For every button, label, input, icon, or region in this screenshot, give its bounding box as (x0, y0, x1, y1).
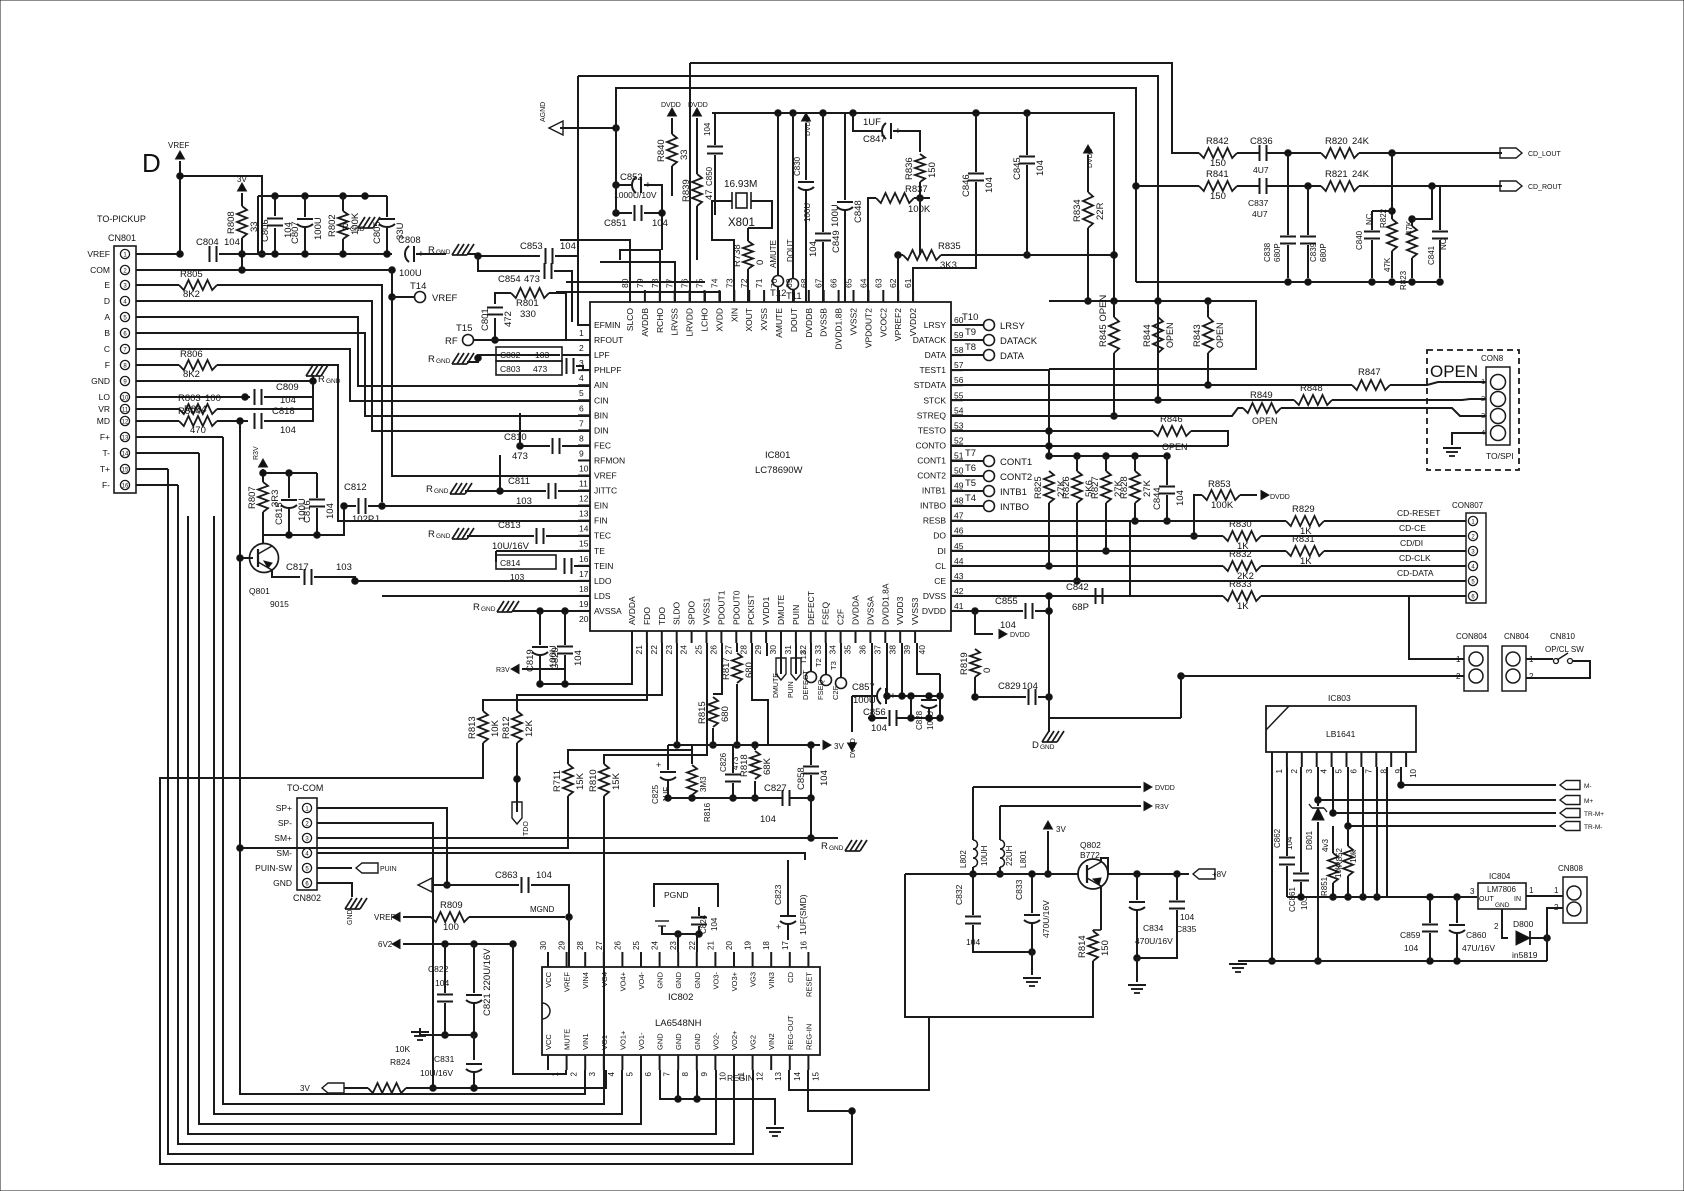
wire vert1049 dvdd (1046, 593, 1053, 690)
wire r823 b (1411, 258, 1413, 278)
wire sp- row (317, 823, 436, 1091)
wire c846 b (913, 182, 976, 302)
capacitor C815 (274, 498, 308, 525)
svg-text:24K: 24K (1352, 169, 1370, 180)
wire row45 b (1324, 550, 1466, 552)
svg-text:FSEQ: FSEQ (816, 679, 825, 700)
svg-text:VREF: VREF (563, 972, 572, 992)
svg-text:R848: R848 (1300, 383, 1323, 394)
capacitor C817 (286, 562, 352, 585)
svg-text:76: 76 (680, 278, 690, 288)
wire E row2 (217, 285, 382, 502)
resistor R820 (1321, 136, 1370, 158)
svg-text:33: 33 (813, 645, 823, 655)
wire T+ row (136, 468, 168, 470)
wire pgnd drops (677, 934, 679, 952)
label R823 (1399, 220, 1414, 290)
svg-text:22UH: 22UH (1005, 845, 1014, 866)
svg-text:CD_ROUT: CD_ROUT (1528, 184, 1563, 191)
wire bus v2 (199, 453, 641, 1124)
resistor R817 (721, 653, 755, 683)
wire c816 leads (316, 473, 318, 498)
resistor R845 (1098, 295, 1119, 353)
label DGND (1032, 740, 1055, 751)
svg-text:VREF: VREF (594, 471, 617, 481)
svg-text:CN808: CN808 (1558, 864, 1583, 873)
svg-text:VIN4: VIN4 (581, 972, 590, 989)
svg-text:FDO: FDO (642, 607, 652, 625)
resistor R832 (1223, 549, 1261, 582)
wire r807 bottom (262, 512, 264, 543)
wire c835 b (1137, 910, 1177, 958)
wire t14 tap (392, 296, 414, 298)
capacitor C841 (1432, 232, 1448, 239)
net flag CD_ROUT (1500, 181, 1563, 191)
svg-text:5: 5 (579, 388, 584, 398)
label C833v (1041, 900, 1051, 938)
wire row46 b (1261, 535, 1466, 537)
capacitor C837 (1260, 178, 1267, 194)
capacitor C852 (620, 172, 651, 193)
wire r828 lead (1134, 456, 1136, 471)
svg-text:150: 150 (1210, 191, 1226, 202)
svg-text:19: 19 (579, 599, 589, 609)
svg-text:AMUTE: AMUTE (769, 240, 778, 268)
wire c842 right (1103, 521, 1130, 596)
wire VREF branch (177, 173, 266, 258)
svg-text:C827: C827 (764, 783, 787, 794)
label T12r (0, 0, 1, 1)
wire r851 b (1330, 883, 1337, 900)
cap C803 box (496, 361, 562, 375)
svg-text:10k: 10k (1349, 849, 1358, 863)
cap C814 box (496, 555, 556, 569)
svg-text:0: 0 (982, 668, 993, 673)
net flag +8V (1193, 869, 1227, 879)
svg-text:CON8: CON8 (1481, 354, 1504, 363)
wire r813 b (160, 743, 852, 1164)
svg-text:24: 24 (679, 645, 689, 655)
svg-text:C852: C852 (620, 172, 643, 183)
svg-text:GND: GND (693, 971, 702, 988)
svg-text:RFMON: RFMON (594, 455, 625, 465)
wire pgnd rail (662, 926, 699, 934)
power flag VREF b (374, 913, 400, 923)
svg-text:C851: C851 (604, 218, 627, 229)
wire c858 lead (810, 745, 812, 765)
test point T3c (836, 678, 847, 689)
svg-text:R802: R802 (327, 214, 338, 237)
svg-text:DVDD: DVDD (1155, 785, 1175, 792)
wire l801 leads (999, 806, 1001, 840)
wire row53 b (1191, 431, 1228, 446)
svg-text:DVDDB: DVDDB (804, 308, 814, 338)
label 4U7b (1252, 209, 1268, 219)
svg-text:IC802: IC802 (668, 992, 693, 1003)
net flag 3V e (300, 1083, 344, 1093)
svg-text:F-: F- (102, 480, 110, 490)
svg-text:FIN: FIN (594, 516, 608, 526)
svg-text:R827: R827 (1090, 476, 1101, 499)
inductor L802 (959, 840, 989, 868)
svg-text:3V: 3V (1056, 825, 1066, 834)
svg-text:3V: 3V (237, 175, 247, 184)
capacitor C857 (852, 682, 896, 706)
svg-text:VREF: VREF (374, 913, 395, 922)
svg-text:47K: 47K (1383, 257, 1392, 272)
svg-text:F: F (105, 360, 110, 370)
svg-text:INTBO: INTBO (1000, 502, 1029, 513)
wire q801 base (240, 557, 253, 559)
wire row52 (951, 443, 1228, 450)
wire tec wire (467, 535, 534, 537)
wire r835 vert (897, 255, 899, 302)
svg-text:R: R (428, 245, 435, 256)
wire r738 leads (747, 228, 749, 241)
wire C801 to rfout (492, 318, 499, 343)
label C831 (434, 1054, 455, 1064)
transistor Q801 (249, 544, 289, 610)
svg-text:28: 28 (576, 941, 585, 950)
svg-text:C808: C808 (398, 235, 421, 246)
wire row42 b (1261, 595, 1466, 597)
svg-text:470: 470 (190, 425, 206, 436)
wire c823 b (787, 924, 789, 940)
svg-text:150: 150 (1100, 940, 1111, 956)
svg-text:C809: C809 (276, 382, 299, 393)
svg-text:22R: 22R (1095, 202, 1106, 220)
capacitor C805 (372, 219, 406, 244)
svg-text:VCOC2: VCOC2 (878, 308, 888, 338)
label REGIN (727, 1073, 754, 1083)
svg-text:26: 26 (613, 941, 622, 950)
label R804 (178, 406, 201, 417)
wire c815 leads (288, 473, 290, 498)
svg-text:23: 23 (669, 941, 678, 950)
wire ic804 gnd wire (1502, 909, 1508, 938)
svg-text:T9: T9 (965, 327, 976, 338)
label C859 (1400, 930, 1421, 940)
svg-text:VG1: VG1 (600, 1035, 609, 1050)
svg-text:in5819: in5819 (1512, 950, 1538, 960)
wire r812 top2 (517, 643, 662, 700)
svg-text:C807: C807 (290, 221, 301, 244)
svg-text:104: 104 (808, 241, 819, 257)
test point T6 (965, 463, 1032, 483)
wire F row (136, 364, 179, 366)
svg-text:1UF: 1UF (863, 117, 881, 128)
svg-text:1: 1 (1529, 886, 1534, 895)
svg-text:IC804: IC804 (1489, 872, 1511, 881)
svg-text:1: 1 (1554, 886, 1559, 895)
svg-text:R: R (342, 222, 349, 233)
svg-text:C849: C849 (831, 230, 842, 253)
label pin2 ic804 (1494, 922, 1499, 931)
svg-text:SM+: SM+ (274, 833, 292, 843)
wire c832 b (973, 925, 1035, 955)
wire C809 out (264, 378, 316, 397)
svg-text:LRSY: LRSY (1000, 321, 1025, 332)
power flag 6V2 (378, 940, 400, 950)
svg-text:F+: F+ (100, 432, 110, 442)
resistor R813 (467, 711, 501, 743)
svg-text:PDOUT1: PDOUT1 (716, 590, 726, 625)
wire datack wire (951, 339, 983, 341)
crystal X801 (724, 179, 757, 229)
svg-text:150: 150 (927, 162, 938, 178)
wire c859 lead (1429, 897, 1431, 923)
svg-text:C829: C829 (998, 681, 1021, 692)
svg-text:24K: 24K (1352, 136, 1370, 147)
wire row42 dvss (951, 595, 1223, 597)
wire c849 lead (822, 113, 824, 232)
zener diode D801 (1305, 804, 1330, 852)
ground RGND e (426, 483, 472, 495)
svg-text:16: 16 (579, 554, 589, 564)
capacitor C831 (466, 1064, 482, 1072)
svg-text:R845 OPEN: R845 OPEN (1098, 295, 1109, 347)
svg-text:C837: C837 (1248, 198, 1269, 208)
wire r824 wire r (406, 1070, 606, 1091)
label C859v (1404, 943, 1418, 953)
label C835 (1176, 924, 1197, 934)
svg-text:STCK: STCK (923, 395, 946, 405)
svg-text:R813: R813 (467, 716, 478, 739)
capacitor C838 (1280, 237, 1296, 244)
svg-text:104: 104 (1175, 490, 1186, 506)
svg-text:T8: T8 (965, 342, 976, 353)
svg-text:XIN: XIN (729, 308, 739, 322)
wire c834 gnd (1136, 958, 1138, 982)
resistor R853 (1202, 479, 1240, 511)
resistor R826 (1061, 471, 1095, 503)
svg-text:7: 7 (579, 418, 584, 428)
svg-text:DEFECT: DEFECT (801, 670, 810, 700)
wire lrsy wire (951, 324, 983, 326)
svg-text:46: 46 (954, 526, 964, 536)
svg-text:R816: R816 (703, 802, 712, 822)
svg-text:2: 2 (1529, 672, 1534, 681)
wire l tops (973, 786, 1141, 788)
wire c855 right (1035, 608, 1052, 615)
label C840 (1355, 213, 1374, 250)
svg-text:680: 680 (720, 706, 731, 722)
svg-text:TO/SPI: TO/SPI (1486, 451, 1514, 461)
svg-text:MD: MD (97, 416, 110, 426)
svg-text:RFOUT: RFOUT (594, 335, 623, 345)
svg-text:A: A (104, 312, 110, 322)
wire r839 b (696, 206, 698, 260)
wire d800 down (1546, 938, 1548, 961)
svg-text:CD-CE: CD-CE (1399, 523, 1426, 533)
svg-text:43: 43 (954, 571, 964, 581)
svg-text:C841: C841 (1427, 245, 1436, 265)
wire r844 b (1155, 353, 1162, 403)
capacitor C819 (525, 645, 559, 672)
label plusc823 (776, 922, 781, 932)
wire regout wire (789, 1017, 929, 1090)
svg-text:12K: 12K (524, 719, 535, 737)
label MGND (530, 905, 555, 914)
wire tec out (546, 535, 590, 537)
wire c842 left (1049, 595, 1095, 597)
svg-text:VREF: VREF (168, 141, 189, 150)
svg-text:DVSS: DVSS (923, 591, 946, 601)
svg-text:103: 103 (510, 572, 524, 582)
svg-text:20: 20 (579, 614, 589, 624)
svg-text:10: 10 (1409, 768, 1418, 777)
wire d800 up (1547, 908, 1563, 938)
svg-text:VG2: VG2 (749, 1035, 758, 1050)
svg-text:VIN1: VIN1 (581, 1033, 590, 1050)
ground CON8 gnd (1443, 448, 1461, 456)
wire d801 b (1315, 822, 1322, 964)
wire c852 right (644, 185, 662, 213)
capacitor C826 (725, 775, 741, 782)
svg-text:103: 103 (516, 496, 532, 507)
svg-text:RCHO: RCHO (655, 308, 665, 333)
svg-text:TE: TE (594, 546, 605, 556)
svg-text:10K: 10K (395, 1044, 410, 1054)
small gnd (655, 921, 669, 926)
svg-text:470U/16V: 470U/16V (1135, 936, 1173, 946)
svg-text:C855: C855 (995, 596, 1018, 607)
capacitor C803 plates (567, 358, 574, 374)
svg-text:R809: R809 (440, 900, 463, 911)
svg-text:12: 12 (579, 494, 589, 504)
wire r825 b (1046, 503, 1053, 569)
svg-text:47: 47 (704, 189, 715, 200)
svg-text:18: 18 (579, 584, 589, 594)
svg-text:52: 52 (954, 435, 964, 445)
svg-text:T6: T6 (965, 463, 976, 474)
wire c824 b (675, 926, 703, 937)
capacitor C829 (998, 681, 1038, 705)
capacitor C862 (1279, 858, 1295, 865)
wire t11 up (792, 113, 794, 278)
svg-text:PUIN-SW: PUIN-SW (255, 863, 292, 873)
svg-text:T13: T13 (799, 651, 808, 664)
wire bottom filter rail (260, 251, 392, 258)
svg-text:R3V: R3V (253, 446, 260, 460)
wire sm+ row (317, 837, 838, 839)
svg-text:104: 104 (710, 917, 719, 931)
wire c862 b (1286, 866, 1288, 897)
svg-text:R832: R832 (1229, 549, 1252, 560)
label PGND (664, 890, 689, 900)
svg-text:LDO: LDO (594, 576, 612, 586)
wire row47 b (1324, 520, 1466, 522)
label C860v (1462, 943, 1495, 953)
svg-text:CON807: CON807 (1452, 501, 1484, 510)
svg-text:DVDD: DVDD (1010, 632, 1030, 639)
svg-text:CL: CL (935, 561, 946, 571)
svg-text:DATA: DATA (925, 350, 947, 360)
svg-text:3: 3 (588, 1071, 597, 1076)
label C837 (1248, 198, 1269, 208)
net flag TR-M- (1560, 822, 1602, 832)
wire c856 right (896, 715, 943, 722)
wire t12 up (777, 113, 779, 275)
svg-text:SP+: SP+ (276, 803, 292, 813)
wire row53 (951, 428, 1153, 435)
wire vert 1049 b (1048, 690, 1050, 718)
wire pin7 drop (1362, 767, 1364, 897)
svg-text:INTB1: INTB1 (1000, 487, 1027, 498)
svg-text:13: 13 (579, 509, 589, 519)
svg-text:T14: T14 (410, 281, 426, 292)
wire amute wire (777, 287, 779, 302)
svg-text:TEIN: TEIN (594, 561, 613, 571)
svg-text:PUIN: PUIN (380, 866, 397, 873)
label FSEQ (816, 679, 825, 700)
label 4U7a (1253, 165, 1269, 175)
wire r814 lead (1093, 930, 1101, 931)
ground RGND h (821, 840, 867, 852)
svg-text:C830: C830 (793, 156, 802, 176)
wire phlpf wire (576, 366, 590, 370)
svg-text:CN804: CN804 (1504, 632, 1529, 641)
label C822 (428, 964, 449, 974)
label R851 (1320, 864, 1343, 896)
svg-text:LCHO: LCHO (700, 308, 710, 332)
wire MD row2 (217, 418, 248, 425)
svg-text:C801: C801 (480, 308, 491, 331)
resistor R808 (226, 206, 260, 238)
svg-text:VPDOUT2: VPDOUT2 (863, 308, 873, 348)
wire rail 745 (668, 742, 820, 749)
svg-text:54: 54 (954, 405, 964, 415)
svg-text:R801: R801 (516, 298, 539, 309)
wire sldo drop (676, 643, 678, 745)
wire dvdd rail (712, 110, 1114, 301)
svg-text:25: 25 (632, 941, 641, 950)
power flag DVDD f (999, 630, 1030, 640)
wire c2f wire (840, 643, 842, 677)
resistor R844 (1142, 317, 1163, 353)
svg-text:AGND: AGND (540, 102, 547, 122)
capacitor C806 (260, 219, 294, 243)
resistor R834 (1072, 192, 1106, 228)
svg-text:680P: 680P (1273, 243, 1282, 262)
svg-text:GND: GND (481, 606, 496, 613)
wire stair p75 (566, 281, 705, 283)
svg-text:DVSSB: DVSSB (819, 308, 829, 337)
svg-text:102PJ: 102PJ (352, 514, 379, 525)
svg-text:GND: GND (674, 971, 683, 988)
wire cn804 pin1 wire (1526, 658, 1553, 660)
svg-text:74: 74 (709, 278, 719, 288)
power flag 3V d (823, 741, 844, 752)
svg-text:47: 47 (954, 511, 964, 521)
op-amp U IC802 LA6548NH (539, 941, 820, 1081)
svg-text:STDATA: STDATA (914, 380, 947, 390)
resistor R814 (1077, 931, 1111, 961)
svg-text:104: 104 (536, 870, 552, 881)
wire c863 wire (432, 884, 519, 886)
svg-text:VVSS3: VVSS3 (910, 597, 920, 625)
svg-text:DVDD1.8B: DVDD1.8B (834, 308, 844, 350)
svg-text:DATACK: DATACK (1000, 336, 1038, 347)
svg-text:R: R (821, 841, 828, 852)
net flag CD_LOUT (1500, 148, 1561, 158)
svg-text:SPDO: SPDO (687, 601, 697, 625)
svg-text:COM: COM (90, 265, 110, 275)
svg-text:14: 14 (793, 1071, 802, 1080)
wire row44 b (1261, 565, 1466, 567)
wire c820 lead b (564, 655, 566, 684)
svg-text:C817: C817 (286, 562, 309, 573)
